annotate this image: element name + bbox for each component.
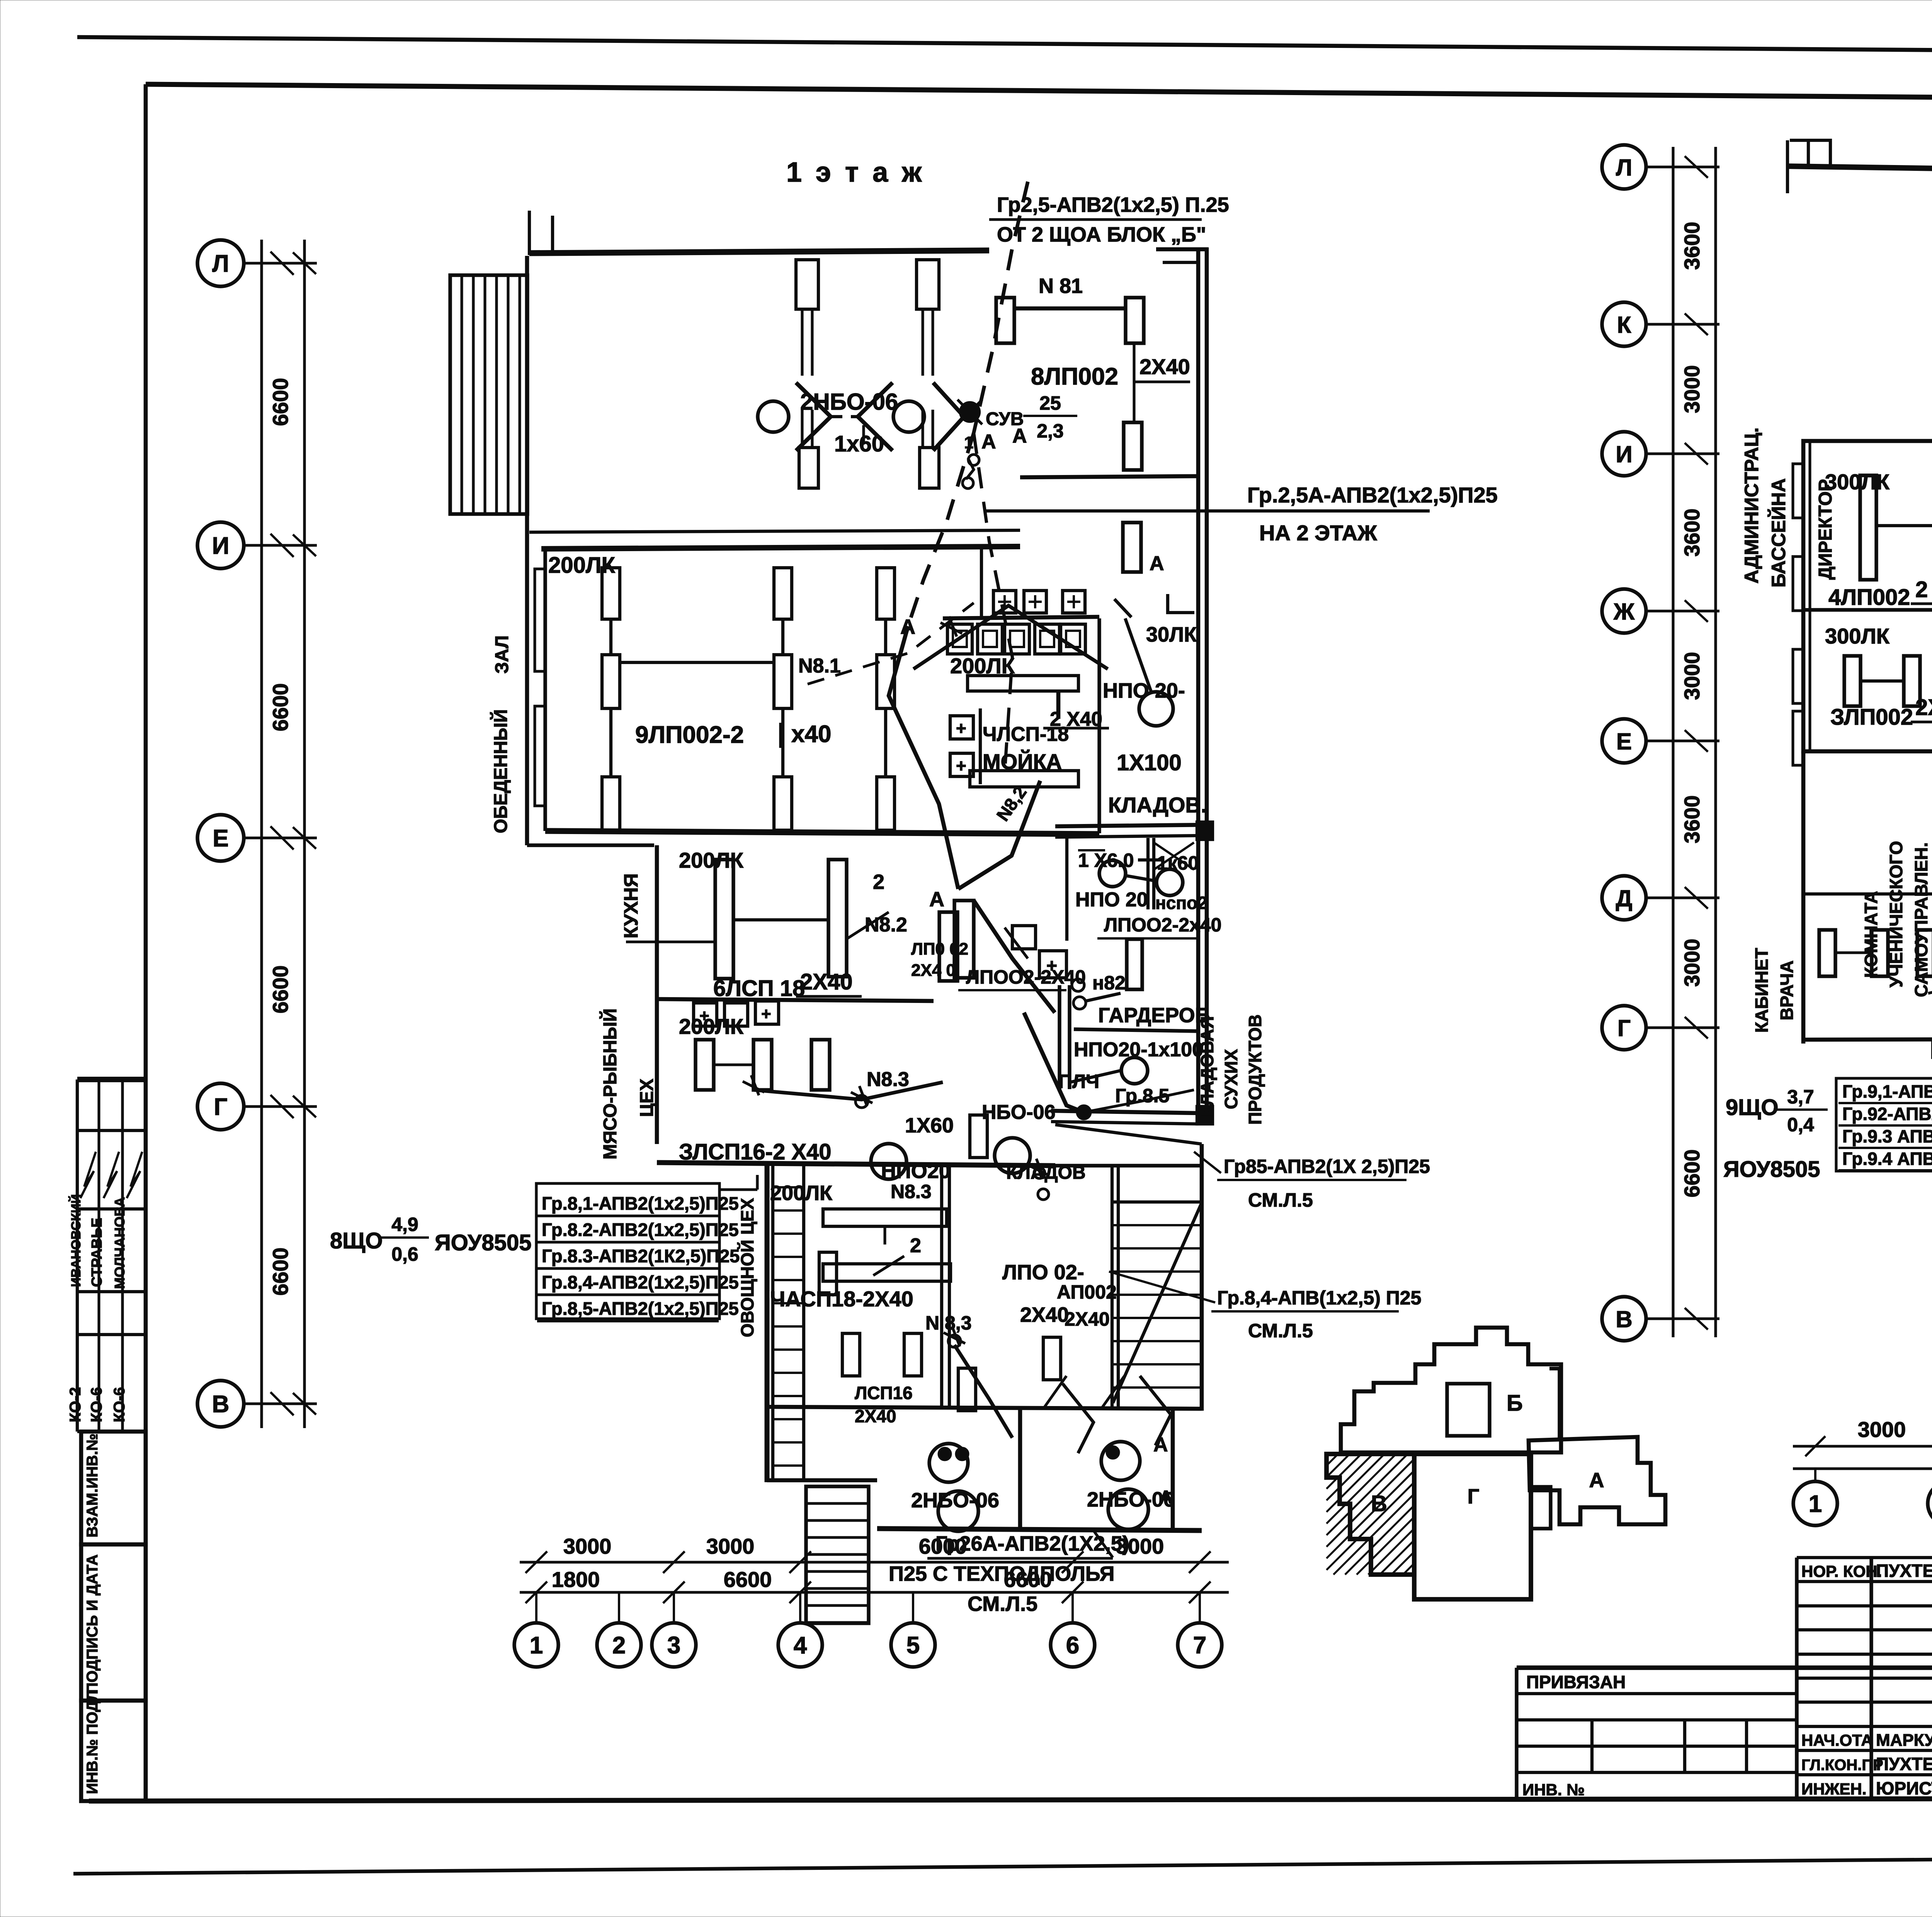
svg-text:ЧЛСП-18: ЧЛСП-18 (983, 723, 1069, 746)
svg-text:ЯОУ8505: ЯОУ8505 (435, 1230, 531, 1255)
svg-text:Гр.9.4 АПВ2(1к2,5)п25: Гр.9.4 АПВ2(1к2,5)п25 (1842, 1149, 1932, 1169)
svg-text:Гр.8.2-АПВ2(1х2,5)П25: Гр.8.2-АПВ2(1х2,5)П25 (542, 1219, 739, 1240)
svg-text:В: В (1616, 1306, 1632, 1332)
svg-text:3,7: 3,7 (1787, 1086, 1814, 1108)
svg-text:4ЛП002: 4ЛП002 (1828, 585, 1910, 610)
svg-text:6600: 6600 (268, 1248, 293, 1296)
svg-text:3000: 3000 (1858, 1417, 1906, 1442)
svg-text:Е: Е (213, 825, 228, 852)
svg-text:СМ.Л.5: СМ.Л.5 (1248, 1189, 1313, 1211)
svg-text:Гр.9,1-АПВ2(1х2,5)п25: Гр.9,1-АПВ2(1х2,5)п25 (1842, 1081, 1932, 1102)
svg-text:СУХИХ: СУХИХ (1221, 1049, 1241, 1109)
svg-text:ЛПО 02-: ЛПО 02- (1002, 1261, 1084, 1284)
svg-text:СМ.Л.5: СМ.Л.5 (1248, 1320, 1313, 1342)
svg-text:ЗЛСП16-2 Х40: ЗЛСП16-2 Х40 (679, 1139, 832, 1165)
svg-text:А: А (1589, 1469, 1604, 1492)
svg-text:Гр.8,4-АПВ2(1х2,5)П25: Гр.8,4-АПВ2(1х2,5)П25 (542, 1272, 739, 1292)
svg-text:ВЗАМ.ИНВ.№: ВЗАМ.ИНВ.№ (84, 1433, 101, 1537)
svg-text:ГАРДЕРОБ: ГАРДЕРОБ (1098, 1004, 1210, 1027)
svg-text:МОЛЧАНОВА: МОЛЧАНОВА (112, 1197, 128, 1289)
svg-text:200ЛК: 200ЛК (548, 553, 615, 578)
svg-text:ЮРИСТ: ЮРИСТ (1876, 1778, 1932, 1798)
svg-text:Гр.8,4-АПВ(1х2,5) П25: Гр.8,4-АПВ(1х2,5) П25 (1217, 1287, 1421, 1309)
svg-text:300ЛК: 300ЛК (1825, 624, 1890, 648)
svg-text:1Х60: 1Х60 (905, 1114, 954, 1137)
svg-text:ИВАНОВСКИЙ: ИВАНОВСКИЙ (68, 1194, 83, 1287)
svg-text:4: 4 (794, 1632, 807, 1659)
svg-text:1х60: 1х60 (834, 431, 884, 456)
svg-text:2НБО-06: 2НБО-06 (800, 389, 898, 415)
svg-text:ОВОЩНОЙ ЦЕХ: ОВОЩНОЙ ЦЕХ (737, 1198, 757, 1337)
svg-text:Е: Е (1616, 729, 1632, 754)
svg-text:Гр85-АПВ2(1Х 2,5)П25: Гр85-АПВ2(1Х 2,5)П25 (1224, 1156, 1430, 1177)
svg-text:8ЩО: 8ЩО (330, 1228, 383, 1253)
svg-text:ПУХТЕЛЬ: ПУХТЕЛЬ (1876, 1754, 1932, 1774)
svg-text:АДМИНИСТРАЦ.: АДМИНИСТРАЦ. (1741, 427, 1762, 584)
svg-text:ОБЕДЕННЫЙ: ОБЕДЕННЫЙ (490, 709, 511, 833)
svg-text:5: 5 (906, 1632, 920, 1659)
svg-text:УЧЕНИЧЕСКОГО: УЧЕНИЧЕСКОГО (1886, 841, 1906, 987)
svg-text:+: + (956, 756, 966, 776)
svg-text:Гр.8,1-АПВ2(1х2,5)П25: Гр.8,1-АПВ2(1х2,5)П25 (542, 1193, 739, 1214)
svg-text:ОТ 2 ЩОА БЛОК „Б": ОТ 2 ЩОА БЛОК „Б" (997, 223, 1206, 246)
svg-text:СТРАВЬЕ: СТРАВЬЕ (89, 1218, 105, 1287)
svg-text:2Х40: 2Х40 (1065, 1308, 1110, 1330)
svg-text:3000: 3000 (1680, 652, 1704, 700)
svg-text:Г: Г (1468, 1485, 1480, 1508)
svg-text:ДИРЕКТОР: ДИРЕКТОР (1815, 479, 1836, 580)
svg-text:N8.3: N8.3 (867, 1068, 909, 1091)
svg-text:6600: 6600 (724, 1567, 772, 1592)
svg-text:н82: н82 (1092, 972, 1126, 994)
svg-text:ЛП0 02: ЛП0 02 (911, 940, 968, 958)
svg-text:Гр26А-АПВ2(1Х2,5): Гр26А-АПВ2(1Х2,5) (935, 1532, 1129, 1555)
svg-text:Гр.2,5А-АПВ2(1х2,5)П25: Гр.2,5А-АПВ2(1х2,5)П25 (1247, 483, 1498, 507)
svg-text:Ж: Ж (1613, 599, 1635, 625)
svg-text:НПО 20: НПО 20 (1075, 889, 1148, 911)
svg-text:КО-6: КО-6 (88, 1387, 105, 1422)
svg-text:АП002: АП002 (1057, 1281, 1117, 1303)
svg-text:ЗАЛ: ЗАЛ (492, 635, 512, 674)
svg-text:В: В (212, 1391, 230, 1418)
svg-text:ИНВ.№ ПОДЛ: ИНВ.№ ПОДЛ (84, 1690, 101, 1794)
svg-text:Гр.92-АПВ2(1х2,5)П25: Гр.92-АПВ2(1х2,5)П25 (1842, 1104, 1932, 1124)
svg-text:КУХНЯ: КУХНЯ (620, 873, 642, 938)
svg-text:2: 2 (910, 1234, 921, 1257)
svg-text:И: И (1616, 441, 1632, 467)
svg-text:N 81: N 81 (1039, 274, 1083, 298)
svg-text:А: А (929, 888, 944, 911)
svg-text:БАССЕЙНА: БАССЕЙНА (1767, 478, 1789, 587)
svg-text:2 Х40: 2 Х40 (1915, 577, 1932, 602)
svg-text:4,9: 4,9 (391, 1214, 418, 1235)
svg-text:6600: 6600 (268, 378, 293, 426)
svg-text:ЦЕХ: ЦЕХ (637, 1079, 657, 1117)
svg-text:Б: Б (1507, 1391, 1523, 1416)
svg-text:НПО20: НПО20 (881, 1159, 951, 1183)
svg-text:ПРИВЯЗАН: ПРИВЯЗАН (1526, 1672, 1626, 1692)
svg-text:8ЛП002: 8ЛП002 (1031, 363, 1118, 390)
svg-text:3000: 3000 (563, 1534, 612, 1558)
svg-text:А: А (981, 431, 996, 453)
svg-text:ПРОДУКТОВ: ПРОДУКТОВ (1245, 1015, 1265, 1125)
svg-text:ЛПОО2-2х40: ЛПОО2-2х40 (1104, 914, 1222, 936)
svg-text:2НБО-06: 2НБО-06 (911, 1489, 999, 1512)
svg-text:КЛАДОВ.: КЛАДОВ. (1108, 793, 1207, 817)
svg-text:6600: 6600 (1680, 1149, 1704, 1198)
svg-text:6ЛСП 18: 6ЛСП 18 (713, 976, 805, 1001)
svg-text:0,4: 0,4 (1787, 1114, 1814, 1136)
svg-text:ПОДПИСЬ И ДАТА: ПОДПИСЬ И ДАТА (84, 1554, 101, 1694)
svg-text:N8.3: N8.3 (891, 1181, 932, 1202)
svg-text:ЯОУ8505: ЯОУ8505 (1723, 1157, 1820, 1182)
svg-text:9ЛП002-2: 9ЛП002-2 (635, 722, 744, 748)
svg-text:2Х40: 2Х40 (855, 1406, 896, 1426)
svg-text:2,3: 2,3 (1037, 420, 1064, 442)
svg-text:А: А (1150, 552, 1164, 575)
svg-text:МАРКУЦКИЙ: МАРКУЦКИЙ (1876, 1730, 1932, 1750)
svg-text:ЧАСП18-2Х40: ЧАСП18-2Х40 (770, 1287, 913, 1311)
svg-text:3600: 3600 (1680, 509, 1704, 557)
svg-text:1Х100: 1Х100 (1117, 750, 1182, 775)
svg-text:ИНВ. №: ИНВ. № (1522, 1781, 1585, 1799)
svg-text:+: + (761, 1004, 771, 1023)
svg-text:Гр.9.3 АПВ2(1х2,5)п25: Гр.9.3 АПВ2(1х2,5)п25 (1842, 1126, 1932, 1146)
svg-text:Д: Д (1616, 885, 1633, 911)
svg-text:ГЛ.КОН.ПР: ГЛ.КОН.ПР (1801, 1757, 1883, 1774)
svg-text:2: 2 (873, 870, 884, 894)
svg-text:ИНЖЕН.: ИНЖЕН. (1801, 1780, 1867, 1798)
svg-text:ЗЛП002: ЗЛП002 (1830, 705, 1913, 730)
svg-text:+: + (956, 718, 966, 738)
svg-text:+: + (699, 1006, 709, 1025)
svg-text:ВРАЧА: ВРАЧА (1777, 960, 1797, 1020)
svg-text:ЛСП16: ЛСП16 (855, 1383, 913, 1403)
svg-text:1 э т а ж: 1 э т а ж (786, 157, 925, 188)
svg-text:30ЛК: 30ЛК (1146, 623, 1197, 646)
svg-text:0,6: 0,6 (391, 1243, 418, 1265)
svg-text:нспо2: нспо2 (1155, 893, 1207, 913)
svg-text:2НБО-06: 2НБО-06 (1087, 1488, 1175, 1511)
svg-text:Гр.8,5-АПВ2(1х2,5)П25: Гр.8,5-АПВ2(1х2,5)П25 (542, 1298, 739, 1319)
svg-text:2: 2 (612, 1632, 626, 1659)
svg-text:N8.1: N8.1 (798, 655, 841, 677)
svg-text:N 8,3: N 8,3 (925, 1312, 972, 1334)
svg-text:3600: 3600 (1680, 795, 1704, 844)
svg-text:2Х4 0: 2Х4 0 (911, 961, 956, 980)
svg-text:НАЧ.ОТА: НАЧ.ОТА (1801, 1731, 1873, 1749)
svg-text:Л: Л (1616, 155, 1632, 180)
svg-text:САМОУПРАВЛЕН.: САМОУПРАВЛЕН. (1911, 842, 1931, 997)
svg-text:ПУХТЕЛЬ: ПУХТЕЛЬ (1876, 1561, 1932, 1581)
svg-text:МЯСО-РЫБНЫЙ: МЯСО-РЫБНЫЙ (599, 1008, 621, 1159)
svg-text:9ЩО: 9ЩО (1726, 1095, 1778, 1120)
svg-text:2Х40: 2Х40 (800, 969, 852, 994)
svg-text:3000: 3000 (1680, 939, 1704, 987)
svg-text:КОМНАТА: КОМНАТА (1861, 891, 1881, 978)
svg-text:Гр.8.3-АПВ2(1К2,5)П25: Гр.8.3-АПВ2(1К2,5)П25 (542, 1246, 740, 1266)
svg-text:СМ.Л.5: СМ.Л.5 (968, 1592, 1037, 1616)
svg-text:А: А (1153, 1433, 1168, 1456)
svg-text:2Х40: 2Х40 (1020, 1303, 1069, 1326)
svg-text:25: 25 (1039, 392, 1061, 414)
svg-text:N8.2: N8.2 (865, 914, 907, 936)
svg-text:К: К (1617, 312, 1631, 338)
svg-text:2Х40: 2Х40 (1139, 354, 1190, 379)
svg-text:Г: Г (1617, 1015, 1631, 1041)
svg-text:Л: Л (212, 250, 229, 277)
svg-text:КАБИНЕТ: КАБИНЕТ (1752, 948, 1772, 1033)
svg-text:КО-6: КО-6 (111, 1387, 128, 1422)
svg-text:Г: Г (214, 1094, 227, 1120)
svg-text:Гр2,5-АПВ2(1х2,5) П.25: Гр2,5-АПВ2(1х2,5) П.25 (997, 193, 1229, 216)
svg-text:1: 1 (530, 1632, 543, 1659)
svg-text:3600: 3600 (1680, 222, 1704, 270)
svg-text:6: 6 (1066, 1632, 1079, 1659)
svg-text:НБО-06: НБО-06 (982, 1101, 1056, 1124)
svg-text:НА 2 ЭТАЖ: НА 2 ЭТАЖ (1259, 521, 1377, 545)
svg-text:КО-2: КО-2 (67, 1387, 84, 1422)
svg-text:6600: 6600 (268, 683, 293, 732)
svg-text:3000: 3000 (1680, 365, 1704, 414)
svg-text:3: 3 (667, 1632, 680, 1659)
svg-text:6600: 6600 (268, 965, 293, 1014)
svg-text:НОР. КОН.: НОР. КОН. (1801, 1562, 1882, 1580)
svg-text:А: А (1012, 425, 1027, 447)
svg-text:КЛАДОВАЯ: КЛАДОВАЯ (1197, 1016, 1217, 1117)
svg-text:2Х40: 2Х40 (1915, 695, 1932, 720)
svg-text:х40: х40 (791, 721, 831, 747)
svg-text:И: И (212, 533, 230, 559)
svg-text:1: 1 (1809, 1491, 1822, 1517)
svg-text:1800: 1800 (552, 1567, 600, 1592)
svg-text:П25 С ТЕХПОДПОЛЬЯ: П25 С ТЕХПОДПОЛЬЯ (889, 1562, 1114, 1585)
svg-text:В: В (1371, 1491, 1387, 1516)
svg-text:ЛПОО2-2Х40: ЛПОО2-2Х40 (966, 966, 1086, 988)
svg-text:3000: 3000 (706, 1534, 755, 1558)
svg-text:7: 7 (1193, 1632, 1206, 1659)
svg-text:200ЛК: 200ЛК (770, 1182, 833, 1205)
